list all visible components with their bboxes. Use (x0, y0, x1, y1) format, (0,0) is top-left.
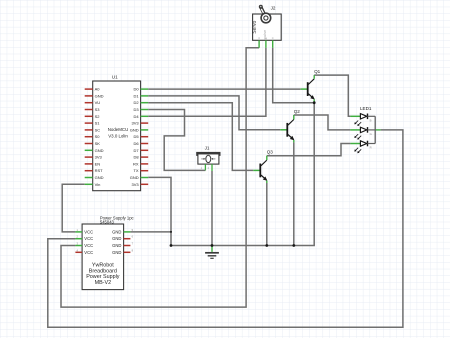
svg-text:GND: GND (95, 148, 104, 153)
svg-text:3V3: 3V3 (95, 155, 103, 160)
svg-text:VCC: VCC (84, 229, 93, 234)
svg-text:3V3: 3V3 (131, 121, 139, 126)
svg-text:GND: GND (95, 175, 104, 180)
svg-text:GND: GND (112, 250, 121, 255)
svg-text:D6: D6 (133, 141, 139, 146)
svg-text:VCC: VCC (84, 250, 93, 255)
svg-text:545043: 545043 (100, 220, 115, 225)
svg-text:GND: GND (130, 127, 139, 132)
svg-text:NodeMCU: NodeMCU (108, 127, 129, 132)
svg-text:LED1: LED1 (360, 106, 372, 111)
svg-text:D8: D8 (133, 155, 139, 160)
svg-text:U1: U1 (112, 75, 118, 80)
svg-text:G: G (370, 132, 372, 136)
svg-text:Q2: Q2 (294, 109, 301, 114)
svg-text:R: R (370, 146, 372, 150)
svg-text:D7: D7 (133, 148, 139, 153)
svg-text:SC: SC (95, 127, 101, 132)
svg-text:D0: D0 (133, 87, 139, 92)
svg-text:Servo: Servo (252, 20, 258, 33)
svg-text:SK: SK (95, 141, 101, 146)
svg-text:EN: EN (95, 161, 101, 166)
svg-text:Q1: Q1 (314, 69, 321, 74)
svg-text:V3.0 Lolin: V3.0 Lolin (108, 133, 128, 138)
svg-text:GND: GND (112, 236, 121, 241)
svg-text:A0: A0 (95, 87, 101, 92)
svg-text:B: B (370, 119, 372, 123)
svg-text:J1: J1 (205, 146, 210, 151)
svg-text:S1: S1 (95, 121, 101, 126)
svg-text:RX: RX (133, 161, 139, 166)
svg-text:VCC: VCC (84, 236, 93, 241)
svg-text:Q3: Q3 (267, 150, 274, 155)
svg-text:3V3: 3V3 (131, 182, 139, 187)
svg-text:S2: S2 (95, 114, 101, 119)
svg-text:D3: D3 (133, 107, 139, 112)
svg-text:VU: VU (95, 100, 101, 105)
svg-text:D5: D5 (133, 134, 139, 139)
svg-text:S0: S0 (95, 134, 101, 139)
svg-text:GND: GND (95, 93, 104, 98)
svg-text:Vin: Vin (95, 182, 101, 187)
svg-text:GND: GND (112, 229, 121, 234)
svg-text:MB-V2: MB-V2 (95, 280, 111, 286)
svg-text:D4: D4 (133, 114, 139, 119)
svg-text:VCC: VCC (84, 243, 93, 248)
svg-text:GND: GND (112, 243, 121, 248)
svg-text:GND: GND (130, 175, 139, 180)
svg-text:D2: D2 (133, 100, 139, 105)
svg-text:S3: S3 (95, 107, 101, 112)
svg-text:TX: TX (133, 168, 138, 173)
svg-text:D1: D1 (133, 93, 139, 98)
svg-text:RST: RST (95, 168, 104, 173)
svg-text:J2: J2 (271, 5, 276, 10)
